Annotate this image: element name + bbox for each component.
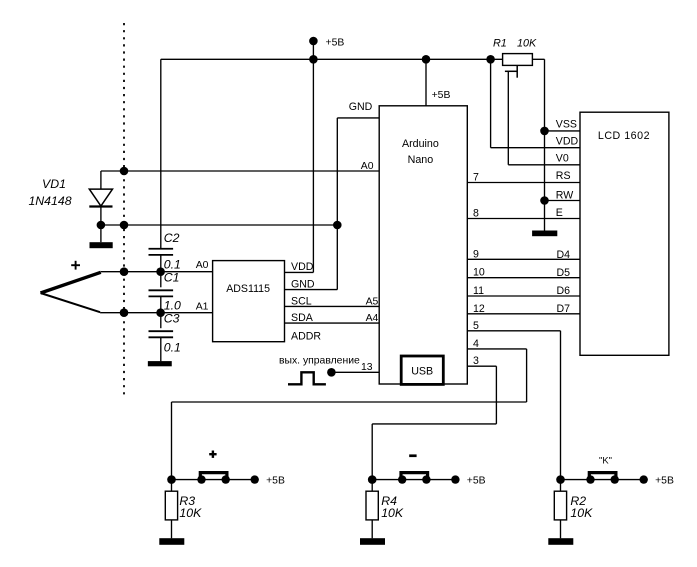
svg-text:+5В: +5В xyxy=(655,476,674,487)
svg-text:12: 12 xyxy=(473,303,485,315)
svg-text:LCD 1602: LCD 1602 xyxy=(598,130,650,142)
svg-text:+5В: +5В xyxy=(467,476,486,487)
svg-text:0.1: 0.1 xyxy=(164,258,181,272)
svg-text:Arduino: Arduino xyxy=(402,138,439,150)
svg-text:10: 10 xyxy=(473,267,485,279)
svg-text:VSS: VSS xyxy=(556,119,577,131)
svg-text:10K: 10K xyxy=(517,37,537,49)
svg-text:C3: C3 xyxy=(164,311,180,325)
svg-text:Nano: Nano xyxy=(408,154,434,166)
svg-text:+5В: +5В xyxy=(326,37,345,48)
svg-text:ADS1115: ADS1115 xyxy=(226,283,270,295)
svg-text:4: 4 xyxy=(473,338,479,350)
svg-text:SDA: SDA xyxy=(291,312,314,324)
svg-text:A1: A1 xyxy=(196,301,209,312)
svg-text:VD1: VD1 xyxy=(42,177,66,191)
svg-text:7: 7 xyxy=(473,172,479,184)
svg-text:V0: V0 xyxy=(556,153,569,165)
svg-text:A0: A0 xyxy=(196,260,209,271)
svg-text:9: 9 xyxy=(473,248,479,260)
svg-text:0.1: 0.1 xyxy=(164,340,181,354)
svg-text:A0: A0 xyxy=(361,161,374,172)
svg-text:SCL: SCL xyxy=(291,296,312,308)
svg-text:+5В: +5В xyxy=(266,476,285,487)
svg-text:VDD: VDD xyxy=(556,135,579,147)
svg-text:USB: USB xyxy=(411,365,433,377)
svg-text:1N4148: 1N4148 xyxy=(28,194,71,208)
svg-text:10K: 10K xyxy=(570,506,593,520)
svg-text:ADDR: ADDR xyxy=(291,330,321,342)
svg-text:VDD: VDD xyxy=(291,261,314,273)
svg-text:RW: RW xyxy=(556,189,573,201)
svg-text:"K": "K" xyxy=(599,455,612,466)
svg-text:C1: C1 xyxy=(164,271,180,285)
svg-text:GND: GND xyxy=(291,279,315,291)
svg-text:5: 5 xyxy=(473,320,479,332)
svg-text:C2: C2 xyxy=(164,231,180,245)
svg-text:RS: RS xyxy=(556,170,571,182)
svg-text:R1: R1 xyxy=(493,37,507,49)
svg-text:11: 11 xyxy=(473,285,484,297)
svg-text:+5В: +5В xyxy=(432,90,451,101)
svg-text:1.0: 1.0 xyxy=(164,298,181,312)
svg-text:8: 8 xyxy=(473,208,479,220)
svg-text:A5: A5 xyxy=(366,297,379,308)
svg-text:вых. управление: вых. управление xyxy=(279,355,360,366)
svg-text:GND: GND xyxy=(349,101,373,113)
svg-text:10K: 10K xyxy=(179,506,202,520)
svg-text:A4: A4 xyxy=(366,313,379,324)
svg-text:E: E xyxy=(556,207,563,219)
svg-text:3: 3 xyxy=(473,355,479,367)
svg-text:10K: 10K xyxy=(381,506,404,520)
svg-text:13: 13 xyxy=(361,362,373,373)
